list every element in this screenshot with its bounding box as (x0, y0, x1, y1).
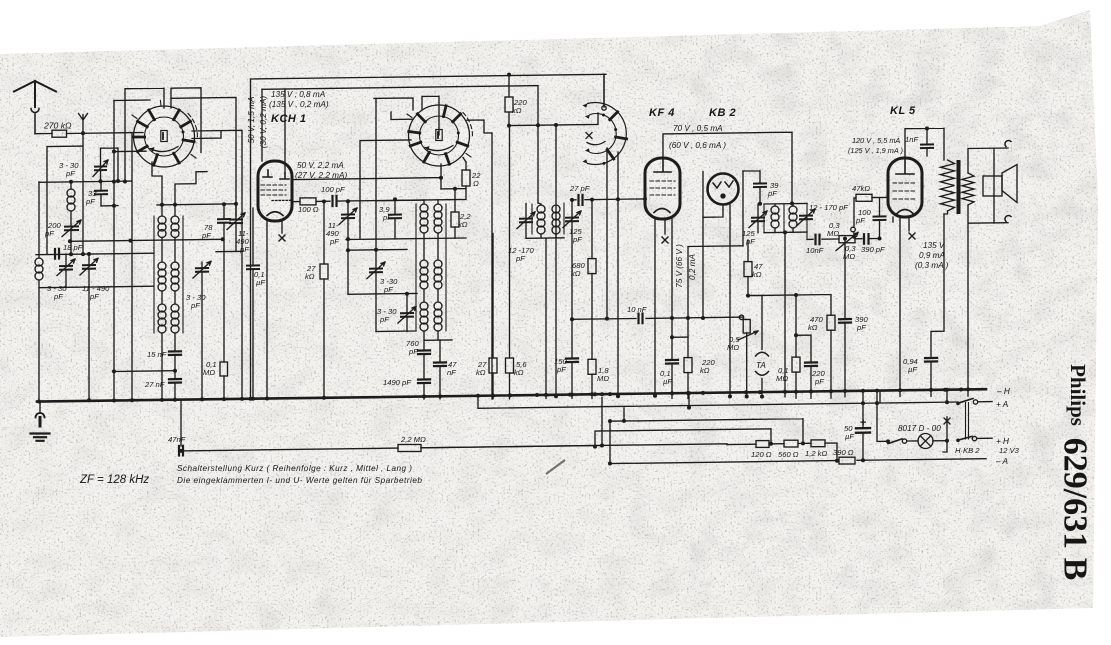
svg-text:kΩ: kΩ (476, 368, 486, 377)
tube KB2 (708, 174, 739, 205)
svg-text:MΩ: MΩ (827, 229, 839, 238)
coil T4 right (789, 206, 797, 214)
svg-text:135 V ; 0,8 mA: 135 V ; 0,8 mA (271, 90, 326, 99)
wire 2.2M line (181, 398, 602, 451)
svg-text:390 pF: 390 pF (861, 245, 885, 254)
svg-text:Ω: Ω (473, 179, 479, 188)
capacitor 33pF (95, 191, 107, 195)
capacitor 100pF series (333, 196, 337, 206)
svg-text:270 kΩ: 270 kΩ (43, 121, 72, 131)
svg-text:kΩ: kΩ (700, 366, 710, 375)
switch gang link (966, 403, 969, 440)
contact S3 top (602, 106, 606, 110)
resistor 1.2kOhm (811, 440, 825, 447)
capacitor 47nF mid (434, 362, 446, 366)
svg-text:MΩ: MΩ (776, 374, 788, 383)
wire T4 top tie (764, 202, 807, 205)
svg-text:47nF: 47nF (168, 435, 186, 444)
KCH1 electrodes (263, 170, 272, 177)
wire bias tie y297 (748, 295, 831, 363)
svg-text:pF: pF (329, 237, 339, 246)
antenna (14, 81, 56, 107)
terminal hook bottom (1005, 215, 1011, 221)
varcap 200pF (65, 226, 78, 230)
KL5 legs (893, 217, 909, 397)
switch blade heater (888, 439, 902, 444)
wire horizontal y181 (39, 181, 131, 182)
resistor 560 Ohm (784, 440, 798, 447)
wire T4 bottom tie (764, 232, 807, 397)
wire electrode stem (284, 89, 286, 173)
coil T1b left top (158, 216, 166, 224)
wire upper loop L1 (125, 88, 164, 182)
capacitor 150pF (566, 358, 578, 362)
ground bus -H (37, 389, 986, 401)
transformer T4 gates (764, 203, 807, 239)
wire switch left entry (114, 150, 146, 152)
svg-text:2,2 MΩ: 2,2 MΩ (400, 435, 426, 444)
coil T4 left (771, 206, 779, 214)
KB2 electrodes (713, 181, 733, 188)
wire KCH1 anode to S2 (294, 164, 441, 189)
svg-text:pF: pF (383, 285, 393, 294)
svg-text:KF 4: KF 4 (649, 107, 675, 119)
wire rail x39 (38, 182, 40, 402)
svg-text:47kΩ: 47kΩ (852, 184, 870, 193)
KL5 electrodes (896, 158, 914, 174)
svg-text:0,2 mA: 0,2 mA (688, 253, 697, 279)
wire L4 row (595, 429, 771, 447)
trimmer 3-30pF band (60, 266, 72, 270)
svg-text:(30 V, 0,2 mA): (30 V, 0,2 mA) (259, 96, 268, 148)
terminal hook top (1005, 140, 1011, 146)
trimmer 3-30pF input (95, 166, 106, 170)
svg-text:100 Ω: 100 Ω (298, 205, 319, 214)
varcap 125pF second (752, 218, 764, 222)
wire S3 lower stubs (607, 148, 618, 396)
resistor 270kOhm (52, 130, 67, 137)
wire tie 15nF-27nF left (114, 370, 175, 373)
svg-text:pF: pF (239, 245, 249, 254)
wire S3 top feed (603, 74, 605, 106)
transformer T2 gates (416, 204, 446, 331)
svg-text:+: + (860, 417, 866, 429)
jack TA (756, 352, 769, 356)
svg-text:MΩ: MΩ (727, 343, 739, 352)
svg-text:(0,3 mA ): (0,3 mA ) (915, 261, 949, 270)
svg-text:pF: pF (767, 189, 777, 198)
svg-text:390 Ω: 390 Ω (833, 448, 854, 457)
svg-text:1nF: 1nF (905, 135, 918, 144)
wire KB2 anode tie (743, 171, 760, 184)
resistor 47kOhm AF (744, 262, 752, 277)
wire rail x250 B+ (250, 79, 252, 399)
varcap 11-490pF band (83, 265, 95, 269)
capacitor 10nF series (816, 235, 820, 245)
wire B+ top rail H1 (251, 74, 606, 107)
svg-text:120 Ω: 120 Ω (751, 450, 772, 459)
svg-text:pF: pF (85, 197, 95, 206)
wire bus to +A link (946, 390, 948, 402)
wire rail x47 (47, 146, 83, 254)
KB2 enclosure (703, 171, 743, 318)
svg-text:pF: pF (89, 292, 99, 301)
switch blade +H (958, 436, 972, 440)
coil T2 right stack (434, 204, 442, 212)
wire upper loop L2 (171, 88, 201, 153)
lamp 8017D-00 (918, 434, 933, 449)
svg-text:629/631 B: 629/631 B (1057, 438, 1094, 581)
svg-text:pF: pF (379, 315, 389, 324)
wire goalpost left rail x376 (375, 98, 377, 268)
resistor 2.2kOhm (451, 212, 459, 227)
svg-text:MΩ: MΩ (203, 368, 215, 377)
capacitor 0.1uF det (666, 360, 678, 364)
svg-text:18 pF: 18 pF (63, 243, 83, 252)
svg-text:– A: – A (995, 457, 1009, 466)
capacitor 1490pF (418, 379, 430, 383)
wire rail x132 (131, 133, 133, 400)
svg-text:pF: pF (572, 235, 582, 244)
varcap 11-490pF osc (230, 219, 242, 223)
svg-text:pF: pF (190, 301, 200, 310)
transformer primary zigzag (941, 160, 955, 211)
varcap 11-490pF second (342, 214, 354, 218)
svg-text:15 nF: 15 nF (147, 350, 167, 359)
svg-text:pF: pF (515, 254, 525, 263)
svg-text:kΩ: kΩ (512, 106, 522, 115)
svg-text:pF: pF (856, 323, 866, 332)
switch S1 (132, 101, 197, 168)
svg-text:135 V: 135 V (923, 241, 946, 250)
wire upper loop L3 (114, 99, 150, 102)
X mark KF4 cathode (662, 237, 668, 243)
X mark KCH1 cathode (279, 235, 285, 241)
KF4 legs (655, 219, 688, 398)
svg-text:kΩ: kΩ (514, 368, 524, 377)
wire primary bottom rail (931, 214, 944, 358)
wire S1 bottom staircase A (152, 162, 162, 216)
varcap 12-170pF (520, 219, 532, 223)
wire 47nF drop (180, 400, 182, 446)
wire T2 bottom row (346, 238, 466, 250)
wire B+ second rail H2 (262, 86, 538, 203)
wire rail x592 (591, 200, 593, 399)
svg-text:+ H: + H (996, 437, 1009, 446)
svg-text:0,9 mA: 0,9 mA (919, 251, 945, 260)
coil T1b left lower (158, 304, 166, 312)
wire tie 220k top (688, 246, 743, 358)
varcap 12-170pF second (800, 216, 812, 220)
ground symbol (39, 402, 41, 413)
resistor 5.6kOhm (506, 358, 514, 373)
antenna coupling hook (31, 109, 39, 134)
resistor 680kOhm (588, 259, 596, 274)
wire S2 left entry 2 (360, 140, 411, 238)
capacitor 0.1uF left (247, 265, 259, 269)
wire tie 3-30 top (101, 148, 119, 181)
transformer T3 gates (532, 203, 564, 234)
svg-text:10nF: 10nF (806, 246, 824, 255)
capacitor 27nF (169, 379, 181, 383)
svg-text:27 pF: 27 pF (569, 184, 590, 193)
transformer core (957, 160, 961, 214)
grid symbol (79, 114, 88, 134)
resistor 1.8MOhm (588, 359, 596, 374)
svg-text:kΩ: kΩ (305, 272, 315, 281)
wire TA branch (748, 295, 762, 349)
svg-text:10 nF: 10 nF (627, 305, 647, 314)
trimmer 3-30pF B (401, 313, 413, 317)
wire H2 drop to tube (261, 89, 263, 161)
svg-text:1490 pF: 1490 pF (383, 378, 411, 387)
wire S1 right exits (192, 131, 221, 139)
svg-text:kΩ: kΩ (752, 270, 762, 279)
wire antenna row (35, 133, 52, 135)
capacitor 760pF (418, 350, 430, 354)
svg-text:ZF = 128 kHz: ZF = 128 kHz (79, 474, 149, 486)
coil T1b right upper (171, 262, 179, 270)
wire S2 left entry (391, 112, 413, 120)
wire 70V rail (663, 132, 792, 203)
resistor 390 Ohm (839, 457, 855, 464)
svg-text:27 nF: 27 nF (144, 380, 165, 389)
coil T1b left upper (158, 262, 166, 270)
svg-text:µF: µF (908, 365, 917, 374)
asterisk lamp (944, 417, 950, 425)
bus junction dots (37, 400, 41, 404)
svg-text:MΩ: MΩ (843, 252, 855, 261)
svg-text:– H: – H (996, 387, 1010, 396)
wire rail x83 (82, 134, 84, 255)
svg-text:µF: µF (256, 278, 265, 287)
transformer secondary zigzag (962, 173, 974, 205)
svg-text:12 V3: 12 V3 (999, 446, 1020, 455)
svg-text:Philips: Philips (1066, 364, 1090, 426)
wire chain feed (421, 443, 837, 461)
svg-text:560 Ω: 560 Ω (778, 450, 799, 459)
svg-text:12 - 170 pF: 12 - 170 pF (809, 203, 848, 212)
svg-text:Schalterstellung Kurz ( Reih: Schalterstellung Kurz ( Reihenfolge : Ku… (177, 464, 412, 473)
wire KL5 top (905, 128, 944, 160)
wire 27pF row (572, 199, 645, 200)
svg-text:µF: µF (845, 432, 854, 441)
svg-text:pF: pF (44, 229, 54, 238)
wire band tap row (157, 204, 236, 205)
KCH1 legs (266, 221, 268, 398)
wire L2 bus stub x689 (688, 393, 690, 407)
svg-text:1,2 kΩ: 1,2 kΩ (805, 449, 827, 458)
svg-text:TA: TA (756, 361, 766, 370)
switch S3 half (583, 103, 627, 165)
wire AVC line with 10nF (572, 317, 743, 319)
svg-text:kΩ: kΩ (808, 323, 818, 332)
coil T2 left stack (420, 204, 428, 212)
potentiometer 0.5MOhm (743, 320, 750, 334)
varcap 125pF (566, 218, 578, 222)
resistor 220kOhm det (684, 358, 692, 373)
capacitor 18pF series (55, 249, 59, 259)
capacitor 220pF (805, 362, 817, 366)
svg-text:pF: pF (53, 292, 63, 301)
wire L2 +A row (478, 392, 958, 408)
wire 18pF row (36, 253, 154, 255)
capacitor 39pF (754, 183, 766, 187)
svg-text:70 V , 0,5 mA: 70 V , 0,5 mA (673, 124, 723, 133)
resistor 470kOhm (827, 315, 835, 330)
svg-text:pF: pF (65, 169, 75, 178)
svg-text:MΩ: MΩ (597, 374, 609, 383)
wire tie trimmerB-T2 (348, 292, 417, 295)
schematic art (14, 73, 1017, 466)
svg-text:100 pF: 100 pF (321, 185, 345, 194)
svg-text:+ A: + A (996, 400, 1009, 409)
speaker cone (1002, 165, 1017, 203)
svg-text:(60 V , 0,6 mA ): (60 V , 0,6 mA ) (669, 141, 726, 150)
resistor 0.1MOhm left (220, 362, 228, 376)
coil antenna upper (70, 181, 72, 189)
resistor 27kOhm det (489, 358, 497, 373)
wire rail x556 (555, 125, 557, 397)
resistor 47kOhm output (856, 194, 872, 201)
crease mark (546, 460, 565, 474)
coil T3 left (537, 205, 545, 213)
potentiometer 0.3MOhm (839, 236, 855, 243)
speaker driver (983, 176, 1002, 196)
switch blade +A (958, 399, 973, 404)
svg-text:pF: pF (745, 237, 755, 246)
wire KB2 bottom (703, 203, 730, 397)
svg-text:Die eingeklammerten I- und U-: Die eingeklammerten I- und U- Werte gelt… (177, 476, 422, 485)
wire secondary top (968, 148, 1008, 173)
switch S2 (407, 105, 472, 166)
wire tie 33pF bottom (101, 205, 118, 207)
capacitor 47nF bottom (179, 446, 183, 456)
svg-text:nF: nF (447, 368, 456, 377)
coil antenna lower (35, 258, 43, 266)
wire L3 row (610, 408, 803, 464)
svg-text:50 V, 2,2 mA: 50 V, 2,2 mA (297, 161, 344, 170)
svg-text:(125 V , 1,9 mA ): (125 V , 1,9 mA ) (848, 146, 903, 155)
svg-text:(135 V , 0,2 mA): (135 V , 0,2 mA) (269, 100, 329, 109)
wire rail x845 (844, 239, 846, 397)
capacitor 100pF second (874, 216, 886, 220)
KF4 electrodes (654, 158, 671, 172)
capacitor 390pF shunt (839, 319, 851, 323)
wire rail x324 27k (323, 202, 325, 400)
resistor 100 Ohm (300, 198, 316, 205)
svg-text:120 V , 5,5 mA: 120 V , 5,5 mA (852, 136, 900, 145)
capacitor 1nF (921, 144, 933, 148)
wire heater branch (877, 391, 888, 442)
speaker line (993, 148, 995, 223)
tube KCH1 (258, 161, 292, 221)
svg-text:pF: pF (814, 377, 824, 386)
capacitor 27pF series (579, 195, 583, 205)
svg-text:H·KB 2: H·KB 2 (955, 446, 980, 455)
resistor 120 Ohm (756, 441, 769, 448)
svg-text:KL 5: KL 5 (890, 105, 916, 117)
resistor 27kOhm (320, 264, 328, 279)
svg-text:KB 2: KB 2 (709, 107, 736, 119)
wire 22 Ohm link (441, 158, 466, 189)
wire S1 bottom staircase B (175, 172, 207, 216)
svg-text:KCH 1: KCH 1 (271, 113, 307, 125)
svg-text:µF: µF (663, 377, 672, 386)
wire 10nF row (807, 238, 880, 241)
wire 100 Ohm row (292, 189, 466, 202)
svg-text:pF: pF (382, 213, 392, 222)
wire 47k grid row (854, 197, 888, 237)
svg-text:(27 V, 2,2 mA): (27 V, 2,2 mA) (295, 171, 347, 180)
capacitor 78pF (218, 219, 230, 223)
other junction dots (69, 180, 73, 184)
tube KF4 (645, 158, 680, 219)
trimmer 3-30pF A (370, 269, 382, 273)
wire tie y287 (39, 286, 153, 288)
capacitor 10nF AVC series (639, 314, 643, 324)
resistor 22 Ohm (462, 170, 470, 186)
wire S2 goalposts (374, 96, 439, 135)
resistor 0.1MOhm AF (792, 357, 800, 372)
svg-text:kΩ: kΩ (458, 220, 468, 229)
wire rail x242 (192, 130, 242, 399)
wire secondary bottom (968, 205, 1008, 396)
capacitor 390pF series (864, 234, 869, 244)
capacitor 3.9pF (389, 215, 401, 219)
wire rail x114 (113, 101, 115, 401)
transformer T1b gates (154, 216, 183, 333)
wire tie x222-x236 (216, 250, 243, 252)
svg-text:pF: pF (201, 231, 211, 240)
wire tie trimmerA-T2 (376, 200, 424, 331)
resistor 220kOhm (505, 97, 513, 112)
svg-text:50 V, 1,5 mA: 50 V, 1,5 mA (247, 96, 256, 143)
coil T1b right top (171, 216, 179, 224)
svg-text:pF: pF (855, 216, 865, 225)
wire antenna to switch (67, 133, 144, 134)
capacitor 50uF electrolytic (856, 428, 870, 433)
svg-text:pF: pF (408, 347, 418, 356)
wire T3 bottom (526, 238, 564, 399)
X mark KL5 cathode (909, 233, 915, 239)
wire -A rail (609, 459, 986, 464)
wire S2 staircase right (467, 120, 492, 399)
wire upper loop L4 (171, 97, 236, 216)
coil T1b right lower (171, 304, 179, 312)
coil T3 right (552, 205, 560, 213)
trimmer 3-30pF osc (196, 268, 208, 272)
capacitor 0.94uF (925, 358, 937, 362)
svg-text:8017 D - 00: 8017 D - 00 (898, 424, 941, 433)
capacitor 15nF (169, 351, 181, 355)
resistor 2.2MOhm (398, 445, 421, 452)
svg-text:kΩ: kΩ (571, 269, 581, 278)
svg-text:pF: pF (556, 365, 566, 374)
svg-text:75 V (66 V ): 75 V (66 V ) (675, 244, 684, 288)
wire 220k junction row (509, 113, 598, 126)
tube KL5 (888, 158, 922, 217)
